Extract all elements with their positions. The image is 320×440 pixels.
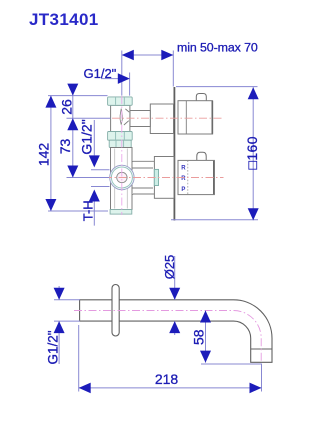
min50 right arrow [161,50,173,61]
svg-text:min 50-max 70: min 50-max 70 [177,40,258,54]
160 ext lines [171,87,258,220]
bottom thread collar [110,210,132,215]
centerline top outlet [112,117,222,119]
svg-text:G1/2": G1/2" [79,119,95,154]
svg-text:26: 26 [59,99,75,115]
svg-text:R: R [181,166,186,172]
blue dims bottom [54,256,262,392]
218 dim line [79,387,262,389]
dim line 142 [50,96,52,211]
svg-text:Ø25: Ø25 [162,255,177,280]
aerator joint [251,348,272,350]
svg-text:G1/2": G1/2" [84,66,117,81]
dim line min50max70 [122,54,174,56]
centerline vertical pipe [121,96,123,215]
G12 top arrow down [54,288,65,300]
ext y177.5 [67,177,110,179]
dia25 top arrow down [169,288,180,300]
26/73 shared arrow (up) [67,118,78,130]
valve boss circles [110,165,134,189]
min50 left arrow [122,50,134,61]
T-H ext lines [91,170,110,187]
upper rough-in block [150,104,173,134]
centerline lower outlet [104,177,224,179]
160 bottom arrow (down) [248,208,259,220]
lower valve body [111,148,133,210]
26 top arrow (down) [67,84,78,96]
G12 dim line [58,286,60,364]
arrows bottom [54,288,262,393]
lower handle (thermostat) [178,152,214,194]
ext tube top/bottom [54,300,80,321]
G12 bottom arrow up [54,321,65,333]
svg-text:G1/2": G1/2" [46,330,61,364]
svg-text:73: 73 [57,139,73,155]
spout body [80,300,272,363]
ext line pipe centre up [121,51,123,96]
svg-text:58: 58 [190,329,206,345]
hex nut 3 [109,140,131,147]
tee outlet pipe [130,111,150,127]
wall flange [112,285,119,337]
160 top arrow (up) [248,87,259,99]
ext y95.6 [48,95,108,97]
ext y118.2 [67,117,111,119]
dimension texts top [36,40,261,221]
arrows top drawing [45,50,258,221]
svg-text:142: 142 [36,143,52,167]
58 top arrow up [200,311,211,323]
dia25 dim line [174,256,176,335]
160 dim line [252,87,254,220]
svg-text:T-H: T-H [81,200,96,221]
svg-text:□160: □160 [244,136,260,169]
142 bottom arrow (down) [45,199,56,211]
tee body [111,105,130,131]
T-H dim line [93,120,95,226]
G12 leader arrow [118,73,130,84]
svg-text:JT31401: JT31401 [29,10,99,29]
dia25 bottom arrow up [169,321,180,333]
handle temperature marks [181,166,186,194]
T-H bottom arrow (up) [89,190,100,202]
leader G1/2 top [101,78,120,80]
lower rough-in block [154,157,174,199]
svg-text:P: P [181,187,185,193]
ext line wall up [172,51,174,87]
hex nut top [108,97,133,105]
58 bottom ext [201,363,262,365]
top handle [178,94,213,135]
142 top arrow (up) [45,96,56,108]
lower port thread [154,169,158,185]
spout centerline [74,311,261,362]
T-H top arrow (down) [89,155,100,167]
dim line 26/73 [72,86,74,178]
wall plate (square 160) edge-on [173,87,175,221]
218 right arrow [250,383,262,394]
218 ext left [78,325,80,392]
hex nut 2 [108,132,133,141]
svg-text:R: R [181,176,186,182]
lower port pipe [132,168,154,188]
dimension texts bottom [46,255,207,387]
218 ext right [261,364,263,392]
58 bottom arrow down [200,351,211,363]
svg-text:218: 218 [155,371,179,387]
73 bottom arrow (down) [67,166,78,178]
218 left arrow [79,383,91,394]
valve seat diagonals [124,109,129,125]
lower port sleeve [128,159,154,197]
ext y211 [48,210,108,212]
ext line G12 arrow target [129,73,131,96]
check valve needle [120,109,122,125]
58 dim line [205,311,207,363]
